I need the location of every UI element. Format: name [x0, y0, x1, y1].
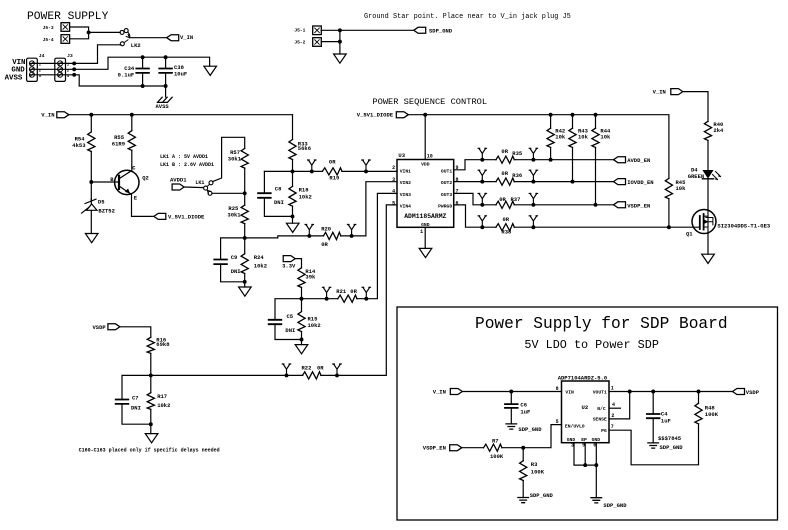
- svg-text:30k1: 30k1: [228, 156, 242, 163]
- svg-text:VIN1: VIN1: [400, 169, 411, 175]
- test point: [362, 287, 370, 298]
- resistor R37: [497, 200, 514, 210]
- svg-text:C4: C4: [661, 410, 668, 417]
- SDP_GND ground: [518, 498, 529, 503]
- svg-text:V_5V1_DIODE: V_5V1_DIODE: [357, 112, 394, 119]
- wire J5-3/J5-4 to LK2: [70, 27, 89, 39]
- net flag IOVDD_EN: [614, 179, 626, 185]
- wire: [707, 140, 709, 170]
- wire: [522, 448, 524, 461]
- power flag V_IN: [671, 89, 683, 95]
- resistor R16: [146, 338, 156, 353]
- svg-text:POWER SEQUENCE CONTROL: POWER SEQUENCE CONTROL: [372, 97, 487, 107]
- svg-text:R17: R17: [157, 393, 167, 400]
- wire: [510, 392, 512, 405]
- svg-text:39k: 39k: [305, 273, 316, 280]
- LED D4 GREEN: [702, 170, 713, 179]
- test point: [478, 148, 486, 159]
- resistor R48: [694, 404, 704, 423]
- wire Q1 source to ground: [707, 233, 709, 254]
- wire: [595, 147, 597, 204]
- junction: [243, 280, 247, 284]
- wire: [244, 168, 246, 205]
- wire VOUT row: [609, 391, 733, 393]
- op-amp U3 ADM1185ARMZ: [397, 160, 454, 228]
- junction: [531, 225, 535, 229]
- svg-text:J5-1: J5-1: [294, 28, 305, 34]
- ground: [334, 54, 347, 63]
- test point: [333, 364, 341, 375]
- wire OUT2 to IOVDD_EN: [454, 181, 614, 183]
- svg-text:7: 7: [611, 424, 614, 430]
- wire GND row to cap bus: [74, 57, 209, 69]
- junction: [310, 169, 314, 173]
- junction: [141, 55, 145, 59]
- svg-text:1: 1: [420, 229, 423, 235]
- junction: [531, 180, 535, 184]
- resistor R40: [703, 122, 713, 140]
- svg-text:1uF: 1uF: [661, 418, 671, 425]
- junction: [307, 234, 311, 238]
- connector J5-4: [61, 35, 70, 44]
- junction: [164, 84, 168, 88]
- resistor R19: [323, 167, 341, 177]
- wire GND pins: [574, 443, 596, 465]
- connector J5-2: [313, 38, 322, 47]
- junction: [521, 446, 525, 450]
- node Q2 base: [89, 180, 93, 184]
- wire J4-J3 row VIN: [30, 62, 74, 64]
- svg-text:C7: C7: [132, 394, 139, 401]
- junction: [480, 203, 484, 207]
- ground: [419, 248, 432, 257]
- wire VSDP to R16: [120, 327, 151, 338]
- wire V_IN bus: [69, 114, 293, 116]
- wire: [301, 332, 303, 345]
- svg-text:DNI: DNI: [231, 268, 241, 275]
- svg-text:R35: R35: [512, 150, 523, 157]
- svg-text:J5-2: J5-2: [294, 39, 305, 45]
- wire to C5: [275, 299, 302, 320]
- svg-text:100K: 100K: [490, 453, 504, 460]
- wire OUT3 to VSDP_EN: [454, 193, 614, 204]
- resistor R3: [518, 462, 528, 480]
- svg-text:SI2304DDS-T1-GE3: SI2304DDS-T1-GE3: [717, 222, 771, 229]
- test point: [529, 170, 537, 181]
- wire to C8: [263, 171, 265, 193]
- svg-text:Q2: Q2: [142, 175, 149, 182]
- svg-text:LK1 A : 5V AVDD1: LK1 A : 5V AVDD1: [160, 154, 208, 160]
- svg-text:30k1: 30k1: [227, 211, 241, 218]
- wire LK2 to V_IN flag: [130, 37, 167, 39]
- svg-text:R38: R38: [501, 229, 512, 236]
- wire: [90, 210, 92, 233]
- power flag V_5V1_DIODE: [154, 213, 166, 219]
- svg-text:J5-4: J5-4: [43, 37, 54, 43]
- wire: [292, 160, 294, 187]
- power flag 3.3V: [283, 256, 295, 262]
- connector J4: [27, 58, 38, 81]
- svg-text:VSDP_EN: VSDP_EN: [627, 202, 650, 209]
- capacitor C6: [505, 404, 518, 408]
- svg-text:V_5V1_DIODE: V_5V1_DIODE: [168, 213, 205, 220]
- svg-text:2k4: 2k4: [713, 127, 724, 134]
- wire 3.3V to R14: [295, 259, 301, 268]
- test point: [478, 193, 486, 204]
- wire U3 GND: [424, 227, 426, 248]
- wire: [90, 152, 92, 183]
- resistor R21: [339, 294, 357, 304]
- wire: [301, 288, 303, 312]
- test point: [322, 287, 330, 298]
- resistor R14: [297, 269, 307, 287]
- svg-text:0R: 0R: [321, 241, 328, 248]
- jumper LK1: [204, 186, 208, 190]
- wire to C9: [221, 238, 245, 260]
- wire VIN4 sense / VSDP row: [151, 205, 397, 376]
- power flag VSDP: [108, 324, 120, 330]
- wire: [522, 481, 524, 498]
- wire: [550, 147, 552, 159]
- junction: [480, 158, 484, 162]
- junction: [285, 373, 289, 377]
- svg-text:ADM1185ARMZ: ADM1185ARMZ: [404, 213, 446, 220]
- svg-text:SDP_GND: SDP_GND: [660, 444, 684, 451]
- wire R20 row: [309, 235, 366, 237]
- box Power Supply for SDP Board: [397, 307, 778, 520]
- svg-text:10k: 10k: [600, 134, 611, 141]
- svg-text:4: 4: [612, 402, 615, 408]
- svg-text:Q1: Q1: [686, 231, 693, 238]
- wire: [572, 115, 574, 129]
- junction: [72, 67, 76, 71]
- resistor R38: [497, 222, 514, 232]
- svg-text:IOVDD_EN: IOVDD_EN: [627, 179, 653, 186]
- svg-text:J4: J4: [39, 53, 45, 59]
- svg-text:VSDP_EN: VSDP_EN: [423, 445, 446, 452]
- wire J5-1 to SDP_GND flag: [321, 29, 413, 31]
- wire: [572, 147, 574, 181]
- svg-text:AVSS: AVSS: [5, 75, 23, 83]
- junction: [130, 113, 134, 117]
- junction: [594, 113, 598, 117]
- power flag V_IN: [57, 112, 69, 118]
- svg-text:2: 2: [392, 165, 395, 171]
- svg-text:C6: C6: [520, 401, 527, 408]
- ground: [295, 345, 308, 354]
- svg-text:0R: 0R: [350, 288, 357, 295]
- junction: [335, 373, 339, 377]
- wire J5-2: [321, 41, 340, 43]
- test point: [308, 160, 316, 171]
- wire: [462, 447, 484, 449]
- ground: [85, 234, 98, 243]
- svg-text:5V LDO to Power SDP: 5V LDO to Power SDP: [524, 338, 659, 352]
- capacitor C34: [136, 69, 149, 73]
- svg-text:R36: R36: [512, 172, 522, 179]
- ground: [239, 287, 252, 296]
- svg-text:SDP_GND: SDP_GND: [429, 28, 453, 35]
- svg-text:R3: R3: [531, 461, 538, 468]
- capacitor C7: [116, 400, 129, 404]
- chassis ground AVSS: [157, 97, 172, 102]
- svg-text:N/C: N/C: [597, 406, 606, 412]
- svg-text:D5: D5: [98, 198, 105, 205]
- power flag V_IN: [450, 389, 462, 395]
- svg-text:Ground Star point. Place near: Ground Star point. Place near to V_in ja…: [364, 13, 571, 21]
- resistor R44: [591, 129, 601, 147]
- SDP_GND ground: [648, 443, 659, 448]
- resistor R33: [288, 140, 298, 158]
- svg-text:0R: 0R: [317, 364, 324, 371]
- jumper LK2: [120, 30, 124, 34]
- power flag AVDD1: [172, 184, 184, 190]
- svg-text:V_IN: V_IN: [180, 34, 193, 41]
- power flag V_IN: [167, 35, 179, 41]
- svg-text:GREEN: GREEN: [688, 173, 705, 180]
- wire to U3 VDD: [424, 115, 426, 160]
- resistor R57: [240, 149, 250, 167]
- junction: [89, 113, 93, 117]
- junction: [72, 73, 76, 77]
- test point: [529, 216, 537, 227]
- junction: [338, 40, 342, 44]
- wire J4-J3 row GND: [30, 68, 74, 70]
- junction: [480, 225, 484, 229]
- zener diode D5 BZT52: [85, 199, 96, 203]
- svg-text:10k2: 10k2: [157, 402, 170, 409]
- svg-text:SDP_GND: SDP_GND: [530, 492, 554, 499]
- junction: [141, 84, 145, 88]
- junction: [628, 390, 632, 394]
- capacitor C5: [269, 320, 282, 324]
- svg-text:V_IN: V_IN: [41, 112, 54, 119]
- wire: [142, 73, 144, 86]
- wire: [595, 115, 597, 129]
- junction: [87, 30, 91, 34]
- svg-text:VIN4: VIN4: [400, 204, 411, 210]
- svg-text:R21: R21: [336, 288, 347, 295]
- svg-text:EN/UVLO: EN/UVLO: [565, 424, 585, 430]
- svg-text:R20: R20: [321, 226, 331, 233]
- resistor R54: [87, 133, 97, 151]
- junction: [325, 297, 329, 301]
- svg-text:VIN2: VIN2: [400, 180, 411, 186]
- junction: [531, 158, 535, 162]
- resistor R18: [288, 187, 298, 205]
- wire EP pin: [584, 443, 586, 465]
- junction: [594, 463, 598, 467]
- resistor R45: [664, 179, 674, 198]
- SDP_GND ground: [506, 424, 517, 429]
- svg-text:VOUT1: VOUT1: [593, 390, 607, 396]
- wire: [90, 115, 92, 132]
- wire to EN/UVLO: [502, 425, 562, 448]
- test point: [529, 193, 537, 204]
- node R25/R24: [243, 236, 247, 240]
- svg-text:R24: R24: [254, 254, 265, 261]
- wire to Q2 base: [91, 181, 119, 183]
- svg-text:10k2: 10k2: [254, 262, 267, 269]
- svg-text:GND: GND: [11, 66, 25, 74]
- svg-text:R37: R37: [511, 196, 521, 203]
- test point: [478, 216, 486, 227]
- svg-text:4k53: 4k53: [72, 142, 86, 149]
- test point: [362, 160, 370, 171]
- svg-text:VSDP: VSDP: [92, 324, 106, 331]
- wire AVSS row to cap bottom bus: [74, 75, 165, 86]
- svg-text:C9: C9: [231, 254, 238, 261]
- power flag V_5V1_DIODE: [396, 112, 408, 118]
- wire: [510, 408, 512, 424]
- wire: [165, 73, 167, 86]
- svg-text:10k: 10k: [555, 134, 566, 141]
- svg-text:AVDD_EN: AVDD_EN: [627, 157, 650, 164]
- junction: [594, 203, 598, 207]
- svg-text:R18: R18: [299, 187, 310, 194]
- test point: [347, 225, 355, 236]
- resistor R43: [568, 129, 578, 147]
- wire: [292, 206, 294, 223]
- svg-text:0R: 0R: [503, 216, 510, 223]
- svg-text:DNI: DNI: [274, 199, 284, 206]
- wire VIN1 row: [264, 170, 397, 172]
- svg-text:C160-C163 placed only if speci: C160-C163 placed only if specific delays…: [79, 448, 220, 454]
- svg-text:J3: J3: [67, 53, 73, 59]
- svg-text:100K: 100K: [531, 468, 545, 475]
- wire SENSE to VOUT: [609, 392, 630, 419]
- wire: [275, 324, 302, 339]
- junction: [651, 390, 655, 394]
- capacitor C4: [647, 414, 660, 418]
- wire AVDD1 to LK1: [184, 186, 203, 189]
- wire node to R20 row: [245, 236, 310, 238]
- test point: [282, 364, 290, 375]
- svg-text:VIN3: VIN3: [400, 192, 411, 198]
- wire: [652, 392, 654, 415]
- svg-text:OUT2: OUT2: [441, 180, 452, 186]
- node AVDD1 divider: [243, 191, 247, 195]
- junction: [423, 113, 427, 117]
- connector J5-1: [313, 26, 322, 35]
- wire: [122, 404, 151, 424]
- svg-text:LK2: LK2: [131, 42, 141, 49]
- svg-text:PG: PG: [601, 428, 607, 434]
- node Q1 gate: [667, 225, 671, 229]
- svg-text:PWRGD: PWRGD: [438, 204, 452, 210]
- wire: [244, 274, 246, 288]
- net flag AVDD_EN: [614, 157, 626, 163]
- test point: [478, 170, 486, 181]
- resistor R25: [240, 206, 250, 223]
- wire VIN2 sense: [366, 182, 397, 236]
- svg-text:LK1 B : 2.6V AVDD1: LK1 B : 2.6V AVDD1: [160, 162, 214, 168]
- wire OUT1 to AVDD_EN: [454, 160, 614, 170]
- ground: [204, 66, 217, 75]
- svg-text:OUT1: OUT1: [441, 169, 452, 175]
- svg-text:10k: 10k: [578, 134, 589, 141]
- junction: [300, 338, 304, 342]
- svg-text:POWER SUPPLY: POWER SUPPLY: [27, 11, 109, 23]
- svg-text:ADP7104ARDZ-5.0: ADP7104ARDZ-5.0: [558, 374, 608, 381]
- junction: [480, 180, 484, 184]
- svg-text:R19: R19: [329, 175, 339, 182]
- wire: [698, 392, 700, 404]
- junction: [571, 180, 575, 184]
- svg-text:BZT52: BZT52: [98, 207, 115, 214]
- resistor R22: [303, 371, 320, 381]
- resistor R36: [497, 177, 514, 187]
- svg-text:J5-3: J5-3: [43, 25, 54, 31]
- junction: [164, 55, 168, 59]
- wire: [652, 418, 654, 443]
- svg-text:0R: 0R: [329, 158, 336, 165]
- svg-text:10k2: 10k2: [299, 194, 312, 201]
- junction: [338, 28, 342, 32]
- resistor R17: [146, 394, 156, 409]
- svg-text:1uF: 1uF: [520, 408, 530, 415]
- wire D4 to Q1 drain: [707, 179, 709, 210]
- capacitor C9: [214, 260, 227, 265]
- svg-text:AVDD1: AVDD1: [170, 177, 187, 184]
- svg-text:10k2: 10k2: [308, 322, 321, 329]
- svg-text:10k: 10k: [676, 185, 687, 192]
- junction: [364, 297, 368, 301]
- svg-text:DNI: DNI: [285, 327, 295, 334]
- svg-text:0R: 0R: [499, 196, 506, 203]
- resistor R7: [484, 443, 501, 453]
- svg-text:LK1: LK1: [195, 180, 204, 186]
- wire: [90, 199, 92, 204]
- wire to LK2 pin: [89, 31, 121, 33]
- wire: [131, 115, 133, 131]
- capacitor C8: [258, 193, 271, 198]
- ground: [145, 434, 158, 443]
- test point: [529, 148, 537, 159]
- svg-text:61R9: 61R9: [112, 141, 125, 148]
- capacitor C38: [159, 69, 172, 73]
- svg-text:VIN: VIN: [565, 390, 574, 396]
- wire: [550, 115, 552, 129]
- svg-text:C5: C5: [287, 313, 294, 320]
- wire: [221, 264, 245, 282]
- svg-text:69k8: 69k8: [156, 341, 170, 348]
- svg-text:100K: 100K: [705, 411, 719, 418]
- wire VIN3 sense / R21 row: [302, 193, 398, 298]
- svg-text:10uF: 10uF: [174, 70, 187, 77]
- transistor Q2: [115, 170, 139, 194]
- svg-text:U2: U2: [582, 404, 589, 411]
- wire V_IN to U2 VIN: [462, 391, 561, 393]
- svg-text:SDP_GND: SDP_GND: [603, 502, 627, 509]
- wire LK2 to J3 pin 1: [74, 45, 121, 64]
- ground: [702, 254, 715, 263]
- svg-text:C8: C8: [275, 185, 282, 192]
- wire N/C stub: [609, 407, 620, 409]
- svg-text:10: 10: [427, 154, 433, 160]
- wire: [142, 57, 144, 68]
- junction: [549, 113, 553, 117]
- power flag VSDP: [733, 389, 745, 395]
- junction: [549, 158, 553, 162]
- resistor R15: [297, 312, 307, 330]
- ground flag SDP_GND: [414, 27, 426, 33]
- svg-text:V_IN: V_IN: [433, 389, 446, 396]
- wire PWRGD to Q1 gate: [454, 205, 700, 227]
- wire to AVSS ground: [165, 86, 167, 97]
- node VIN4: [149, 373, 153, 377]
- svg-text:1: 1: [611, 385, 614, 391]
